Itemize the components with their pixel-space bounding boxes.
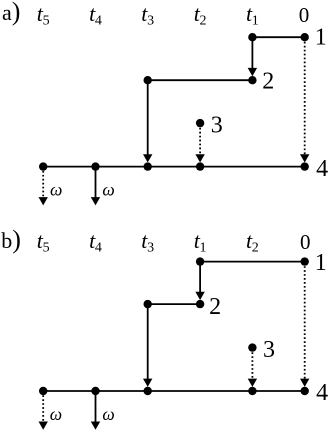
svg-text:3: 3 xyxy=(147,13,154,28)
svg-text:2: 2 xyxy=(209,294,221,320)
node at t3 (panel a) xyxy=(144,76,152,84)
node 4 (panel a) xyxy=(301,162,309,170)
node t5 bottom (panel a) xyxy=(39,162,47,170)
svg-text:3: 3 xyxy=(263,337,275,363)
svg-text:4: 4 xyxy=(316,380,328,406)
node 4 (panel b) xyxy=(301,387,309,395)
arrow t3 down to bottom line (panel b) xyxy=(147,304,149,380)
node 2 (panel a) xyxy=(248,76,256,84)
wire: bottom line (panel b) xyxy=(43,390,305,392)
svg-text:4: 4 xyxy=(316,156,328,182)
node 1 (panel b) xyxy=(301,257,309,265)
svg-text:2: 2 xyxy=(262,69,274,95)
svg-text:3: 3 xyxy=(147,241,154,256)
svg-text:3: 3 xyxy=(211,112,223,138)
svg-text:5: 5 xyxy=(43,13,50,28)
node t4 bottom (panel a) xyxy=(91,162,99,170)
wire: horizontal t3 to node 2 (panel a) xyxy=(148,79,253,81)
dotted arrow node 3 down (panel a) xyxy=(199,128,201,155)
arrow t3 down to bottom line (panel a) xyxy=(147,80,149,156)
dotted arrow node 3 down (panel b) xyxy=(251,352,253,379)
solid omega arrow at t4 (panel b) xyxy=(95,391,97,422)
node t5 bottom (panel b) xyxy=(39,387,47,395)
svg-text:b): b) xyxy=(1,225,21,254)
svg-text:1: 1 xyxy=(315,250,327,276)
svg-text:4: 4 xyxy=(95,241,102,256)
wire: bottom line (panel a) xyxy=(43,166,305,168)
wire: horizontal t3 to node 2 (panel b) xyxy=(148,303,200,305)
dotted omega arrow at t5 (panel b) xyxy=(42,395,44,422)
arrow t1 down to node 2 (panel a) xyxy=(251,37,253,69)
dotted arrow node 1 down to node 4 (panel b) xyxy=(304,266,306,379)
dotted omega arrow at t5 (panel a) xyxy=(42,171,44,198)
node 1 (panel a) xyxy=(301,33,309,41)
node t3 bottom (panel b) xyxy=(144,387,152,395)
svg-text:ω: ω xyxy=(50,404,62,424)
svg-text:a): a) xyxy=(2,0,20,26)
arrow t1 down to node 2 (panel b) xyxy=(199,262,201,294)
node t2 bottom (panel a) xyxy=(196,162,204,170)
svg-text:2: 2 xyxy=(200,13,207,28)
svg-text:5: 5 xyxy=(43,241,50,256)
node at t1 top (panel b) xyxy=(196,257,204,265)
svg-text:1: 1 xyxy=(200,241,207,256)
node 3 (panel a) xyxy=(196,119,204,127)
svg-text:0: 0 xyxy=(300,230,311,254)
dotted arrow node 1 down to node 4 (panel a) xyxy=(304,42,306,155)
node 2 (panel b) xyxy=(196,300,204,308)
node t2 bottom (panel b) xyxy=(248,387,256,395)
svg-text:1: 1 xyxy=(252,13,259,28)
node at t1 top (panel a) xyxy=(248,33,256,41)
wire: top horizontal t1-0 (panel b) xyxy=(200,261,305,263)
solid omega arrow at t4 (panel a) xyxy=(95,167,97,198)
svg-text:ω: ω xyxy=(50,180,62,200)
node at t3 (panel b) xyxy=(144,300,152,308)
svg-text:ω: ω xyxy=(102,404,114,424)
node 3 (panel b) xyxy=(248,343,256,351)
svg-text:4: 4 xyxy=(95,13,102,28)
node t4 bottom (panel b) xyxy=(91,387,99,395)
wire: top horizontal t1-0 (panel a) xyxy=(252,36,304,38)
svg-text:1: 1 xyxy=(315,25,327,51)
svg-text:0: 0 xyxy=(299,3,310,27)
svg-text:2: 2 xyxy=(252,241,259,256)
node t3 bottom (panel a) xyxy=(144,162,152,170)
svg-text:ω: ω xyxy=(102,180,114,200)
